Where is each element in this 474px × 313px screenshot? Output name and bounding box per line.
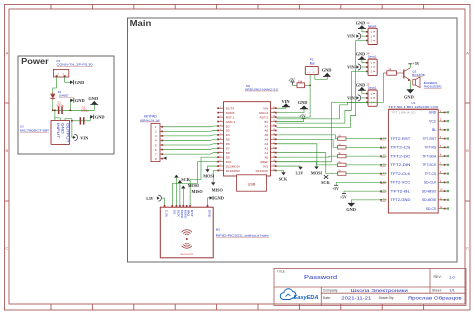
svg-text:GND: GND xyxy=(404,94,414,99)
svg-text:SCK: SCK xyxy=(176,210,180,217)
svg-text:TFT2-DC: TFT2-DC xyxy=(390,154,411,158)
svg-text:28: 28 xyxy=(273,116,275,118)
svg-text:VIN: VIN xyxy=(282,99,291,104)
svg-text:GND: GND xyxy=(322,68,332,73)
svg-text:GND: GND xyxy=(61,123,65,134)
svg-text:RST-1: RST-1 xyxy=(226,115,235,119)
svg-text:TFT-CS: TFT-CS xyxy=(424,172,436,176)
svg-text:RST: RST xyxy=(190,210,194,217)
svg-text:A5: A5 xyxy=(265,133,269,137)
svg-text:D9: D9 xyxy=(226,155,230,159)
svg-text:A1: A1 xyxy=(265,151,269,155)
svg-text:GND: GND xyxy=(346,207,356,212)
svg-text:D7: D7 xyxy=(226,147,230,151)
svg-text:FMQ-BUZZER2: FMQ-BUZZER2 xyxy=(424,85,442,89)
svg-text:VIN: VIN xyxy=(347,95,355,100)
svg-text:D13/SCK: D13/SCK xyxy=(256,169,269,173)
svg-text:GND-1: GND-1 xyxy=(226,120,236,124)
svg-text:+5V: +5V xyxy=(299,115,306,119)
svg-text:1N4007: 1N4007 xyxy=(59,94,69,98)
svg-text:A6: A6 xyxy=(265,129,269,133)
svg-text:But: But xyxy=(310,61,315,65)
svg-text:TFT2-VCC: TFT2-VCC xyxy=(390,181,411,185)
svg-text:GND: GND xyxy=(356,82,365,87)
svg-text:1.0: 1.0 xyxy=(449,274,455,279)
svg-text:19: 19 xyxy=(273,156,275,158)
svg-text:SD-CS: SD-CS xyxy=(426,207,437,211)
svg-text:D6: D6 xyxy=(226,142,230,146)
svg-text:EasyEDA: EasyEDA xyxy=(294,295,319,301)
svg-text:A2: A2 xyxy=(265,147,269,151)
svg-text:TFT2-RST: TFT2-RST xyxy=(390,137,410,141)
svg-text:VIN: VIN xyxy=(347,64,355,69)
svg-text:A7: A7 xyxy=(265,124,269,128)
svg-text:15: 15 xyxy=(219,169,221,171)
svg-text:13: 13 xyxy=(219,160,221,162)
svg-text:TFT2-GND: TFT2-GND xyxy=(390,198,411,202)
svg-text:C: C xyxy=(5,246,8,251)
svg-text:D0/RX: D0/RX xyxy=(226,111,235,115)
svg-text:SCK: SCK xyxy=(279,176,288,181)
svg-text:6: 6 xyxy=(220,129,221,131)
svg-text:BL: BL xyxy=(432,128,436,132)
svg-text:MOSI: MOSI xyxy=(311,171,323,176)
svg-text:GND: GND xyxy=(214,196,224,201)
svg-text:2: 2 xyxy=(220,111,221,113)
svg-text:25: 25 xyxy=(273,129,275,131)
svg-text:+5V: +5V xyxy=(332,187,339,191)
svg-text:Date:: Date: xyxy=(323,296,331,300)
svg-text:Main: Main xyxy=(130,18,152,28)
svg-text:D4: D4 xyxy=(226,133,230,137)
svg-text:8: 8 xyxy=(220,138,221,140)
svg-text:14: 14 xyxy=(219,165,221,167)
svg-text:D11/MOSI: D11/MOSI xyxy=(226,164,240,168)
svg-text:Drawn By:: Drawn By: xyxy=(379,296,395,300)
svg-text:+5V: +5V xyxy=(340,196,347,200)
svg-text:TFT2-BL: TFT2-BL xyxy=(390,189,410,193)
svg-text:SCK: SCK xyxy=(181,177,190,182)
svg-text:MISO: MISO xyxy=(192,189,204,194)
svg-text:D3: D3 xyxy=(226,129,230,133)
svg-text:1000u: 1000u xyxy=(56,104,64,108)
svg-text:5V: 5V xyxy=(265,120,269,124)
svg-text:SCK: SCK xyxy=(321,180,330,185)
svg-text:TFT-RS: TFT-RS xyxy=(424,146,436,150)
svg-text:A: A xyxy=(5,51,8,56)
svg-text:RST-2: RST-2 xyxy=(260,115,269,119)
svg-text:26: 26 xyxy=(273,125,275,127)
svg-text:A4: A4 xyxy=(265,138,269,142)
svg-text:TITLE:: TITLE: xyxy=(277,269,286,273)
svg-text:USB: USB xyxy=(248,182,256,186)
svg-text:+5V: +5V xyxy=(413,62,420,66)
svg-text:1: 1 xyxy=(220,107,221,109)
svg-text:22: 22 xyxy=(273,142,275,144)
svg-text:7: 7 xyxy=(220,134,221,136)
svg-text:D8: D8 xyxy=(226,151,230,155)
svg-text:GND: GND xyxy=(75,80,85,85)
svg-text:3V3: 3V3 xyxy=(263,164,269,168)
svg-text:27: 27 xyxy=(273,120,275,122)
svg-text:D2: D2 xyxy=(226,124,230,128)
svg-text:M2: M2 xyxy=(216,228,221,232)
svg-text:3: 3 xyxy=(220,116,221,118)
svg-text:D1/TX: D1/TX xyxy=(226,106,235,110)
svg-text:CONN-TH_2P-P5.30: CONN-TH_2P-P5.30 xyxy=(57,63,93,67)
svg-text:OUTPUT: OUTPUT xyxy=(66,123,70,143)
svg-text:GND: GND xyxy=(356,21,365,26)
svg-text:29: 29 xyxy=(273,111,275,113)
svg-text:23: 23 xyxy=(273,138,275,140)
svg-text:20: 20 xyxy=(273,151,275,153)
svg-text:GND: GND xyxy=(208,210,212,218)
svg-text:TFT-SCK: TFT-SCK xyxy=(422,163,437,167)
svg-text:D10: D10 xyxy=(226,160,232,164)
svg-text:TFT2-CS: TFT2-CS xyxy=(390,146,411,150)
svg-text:Power: Power xyxy=(21,56,49,66)
svg-text:A0: A0 xyxy=(265,155,269,159)
svg-text:GND: GND xyxy=(75,98,85,103)
svg-text:D5: D5 xyxy=(226,138,230,142)
svg-text:GND: GND xyxy=(429,111,437,115)
svg-text:GND-2: GND-2 xyxy=(259,111,269,115)
svg-text:TFT-RST: TFT-RST xyxy=(422,137,436,141)
svg-text:REV:: REV: xyxy=(434,275,442,279)
svg-text:TFT-SDA: TFT-SDA xyxy=(422,154,437,158)
svg-text:SD-MOSI: SD-MOSI xyxy=(422,198,436,202)
svg-text:12: 12 xyxy=(219,156,221,158)
svg-text:D12/MISO: D12/MISO xyxy=(226,169,241,173)
svg-text:4: 4 xyxy=(220,120,221,122)
svg-text:VIN: VIN xyxy=(263,106,268,110)
svg-text:1/1: 1/1 xyxy=(450,289,455,293)
svg-text:VCC: VCC xyxy=(429,119,437,123)
svg-text:2021-11-21: 2021-11-21 xyxy=(341,295,372,300)
svg-text:VIN: VIN xyxy=(347,34,355,39)
svg-text:MC7805CT-BP: MC7805CT-BP xyxy=(20,129,49,133)
svg-text:3.3V: 3.3V xyxy=(296,172,304,176)
svg-text:GND: GND xyxy=(88,96,98,101)
svg-text:TFT 1.8IN W SD: TFT 1.8IN W SD xyxy=(392,111,416,115)
svg-text:C: C xyxy=(466,246,469,251)
svg-text:MOSI: MOSI xyxy=(188,183,200,188)
svg-text:GND: GND xyxy=(298,100,308,105)
svg-text:AREF: AREF xyxy=(260,160,268,164)
svg-text:SD-MISO: SD-MISO xyxy=(422,189,437,193)
svg-text:1000u: 1000u xyxy=(81,109,89,113)
svg-text:ARDUINO-NANO-3.0: ARDUINO-NANO-3.0 xyxy=(245,87,278,91)
svg-text:A: A xyxy=(466,51,469,56)
svg-text:Ярослав Образцов: Ярослав Образцов xyxy=(408,295,463,300)
svg-text:Школа Электроники: Школа Электроники xyxy=(351,288,409,293)
svg-text:INPUT: INPUT xyxy=(56,123,60,139)
svg-text:Sheet:: Sheet: xyxy=(432,288,442,292)
svg-text:11: 11 xyxy=(219,151,221,153)
svg-text:Company:: Company: xyxy=(323,289,339,293)
svg-text:24: 24 xyxy=(273,134,275,136)
svg-text:18: 18 xyxy=(273,160,275,162)
svg-text:BC337/B: BC337/B xyxy=(412,73,424,77)
svg-text:GND: GND xyxy=(356,51,365,56)
svg-text:VIN: VIN xyxy=(80,135,89,140)
svg-text:3.3V: 3.3V xyxy=(165,210,169,218)
svg-text:TFT2-CLK: TFT2-CLK xyxy=(390,172,411,176)
svg-text:17: 17 xyxy=(273,165,275,167)
svg-text:30: 30 xyxy=(273,107,275,109)
svg-text:MISO: MISO xyxy=(212,187,224,192)
svg-text:GND: GND xyxy=(95,115,105,120)
svg-text:TFT2-DIN: TFT2-DIN xyxy=(390,163,411,167)
svg-text:9: 9 xyxy=(220,142,221,144)
svg-text:SS: SS xyxy=(172,210,176,215)
svg-text:16: 16 xyxy=(273,169,275,171)
svg-text:HDR-M-2.54_1x8: HDR-M-2.54_1x8 xyxy=(140,118,160,122)
svg-text:21: 21 xyxy=(273,147,275,149)
svg-text:B: B xyxy=(466,148,469,153)
svg-text:3.3V: 3.3V xyxy=(146,197,154,201)
svg-text:5: 5 xyxy=(220,125,221,127)
svg-text:RFID-RC522: RFID-RC522 xyxy=(180,254,193,256)
svg-text:Password: Password xyxy=(304,275,337,281)
svg-text:10: 10 xyxy=(219,147,221,149)
svg-text:SD-CLK: SD-CLK xyxy=(424,181,437,185)
svg-text:B: B xyxy=(5,148,8,153)
svg-text:A3: A3 xyxy=(265,142,269,146)
